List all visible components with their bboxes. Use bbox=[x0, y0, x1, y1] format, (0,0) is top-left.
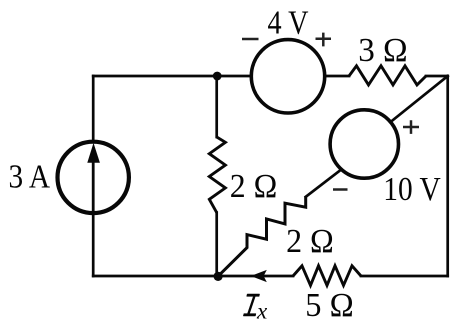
svg-text:5 Ω: 5 Ω bbox=[305, 287, 353, 324]
svg-text:2 Ω: 2 Ω bbox=[230, 168, 277, 205]
svg-text:x: x bbox=[256, 299, 268, 324]
svg-text:3 A: 3 A bbox=[9, 159, 51, 196]
svg-text:3 Ω: 3 Ω bbox=[358, 32, 408, 69]
svg-text:10 V: 10 V bbox=[383, 171, 441, 208]
svg-text:2 Ω: 2 Ω bbox=[286, 223, 334, 260]
svg-text:4 V: 4 V bbox=[268, 5, 309, 42]
